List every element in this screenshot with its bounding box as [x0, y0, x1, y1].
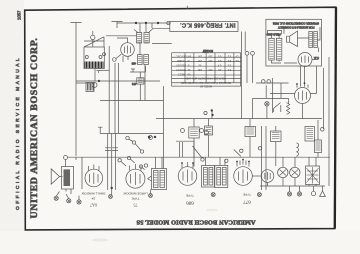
field coil winding B (inset) [276, 38, 281, 60]
resistor R2 zigzag [287, 103, 290, 115]
tube V7 (42 output) [295, 88, 311, 104]
right vertical wires [318, 57, 329, 186]
tube V1 electrodes [125, 46, 131, 54]
svg-text:TYPE: TYPE [132, 197, 140, 201]
svg-text:LARGE WINDOW: LARGE WINDOW [123, 192, 147, 196]
V6 labels (rotated 180) [243, 193, 251, 204]
diagonal wire to V5 [193, 146, 203, 158]
tube V1 grid cap [113, 58, 117, 62]
terminal circle mid [204, 111, 207, 114]
jack circle J1 [92, 83, 97, 88]
interstage transformer T3 winding A [202, 166, 215, 188]
svg-text:6A7: 6A7 [90, 203, 97, 208]
resistor R4 boxed right [271, 131, 282, 142]
resistor R3 boxed (1st AF plate) [189, 127, 199, 138]
wire osc to IF [106, 35, 137, 37]
junction dot osc [98, 80, 100, 82]
wire mid verticals [212, 83, 242, 119]
bus wire y81 [76, 80, 160, 82]
V3 labels (rotated 180) [81, 192, 105, 208]
pin dots [296, 83, 298, 85]
junction dot [157, 22, 159, 24]
svg-text:-3.0: -3.0 [217, 55, 222, 58]
svg-text:MODEL 5S: MODEL 5S [200, 84, 212, 87]
tuning gang wires [108, 134, 116, 191]
top bus wire [117, 22, 170, 24]
terminal circled x mid-bottom [211, 193, 215, 197]
resistor R1 top-left hatched [86, 83, 94, 92]
terminal crossed B [297, 192, 301, 196]
tube V7 pins [297, 66, 308, 88]
tube V8 (inset output tube) [298, 53, 312, 67]
circled label c [205, 131, 209, 135]
page border right double edge [335, 7, 336, 228]
rectifier socket B [290, 167, 300, 177]
power switch circle-x [265, 102, 269, 106]
speaker horn [287, 31, 298, 47]
terminal open circle [311, 191, 315, 195]
svg-text:75: 75 [134, 203, 138, 208]
svg-text:CF: CF [235, 59, 239, 62]
faint margin smudge 1 [92, 239, 108, 242]
T3 top wires [206, 157, 226, 166]
svg-text:OFFICIAL RADIO SERVICE MANUAL: OFFICIAL RADIO SERVICE MANUAL [15, 56, 21, 210]
B+ bus wire [156, 118, 322, 120]
gang ground terminal [109, 195, 113, 199]
wire stub y43 [152, 43, 172, 45]
switch S2 [251, 51, 255, 55]
tube V4 pins [130, 164, 142, 171]
IF transformer T1 winding top [137, 33, 142, 44]
long bus y157 [68, 156, 331, 158]
diagonal wire to V6 [234, 150, 241, 157]
terminal post A [263, 194, 265, 196]
terminal circled x right [257, 193, 261, 197]
capacitor C6 T-shape [98, 127, 103, 133]
svg-text:470: 470 [131, 82, 136, 86]
antenna coil L2 [62, 167, 74, 190]
wire y83 inset-bottom [256, 83, 289, 98]
wire left column [75, 83, 77, 156]
scan shading left [0, 0, 24, 254]
capacitor C3 pair [105, 148, 118, 151]
grid cap circle V5 [201, 158, 204, 161]
svg-text:606: 606 [186, 200, 194, 205]
junction dot bus2 [211, 114, 213, 116]
oscillator coil box L1 [84, 47, 104, 69]
transformer small right [305, 127, 315, 142]
svg-text:I.F.AMP: I.F.AMP [176, 59, 185, 62]
tube V5 (75/606) [178, 167, 197, 186]
power transformer T4 [306, 166, 320, 185]
inset wires [284, 27, 320, 63]
terminal crossed A [287, 192, 291, 196]
choke box C [245, 127, 256, 137]
wire V6 to pair [252, 175, 261, 177]
pin dots V5 [181, 162, 183, 164]
notch mark top border [186, 6, 188, 9]
wire tube V1 stems [117, 38, 128, 62]
wire trimmer to box [92, 31, 94, 47]
tube V6 pins row [237, 160, 249, 167]
circled mark with slash [149, 136, 153, 140]
coil winding hatch (dark band) [85, 62, 103, 69]
svg-text:SOCKET: SOCKET [202, 49, 213, 52]
V4 labels (rotated 180) [123, 192, 147, 208]
svg-text:VOLTAGES AT SOCKETS 117V LINE: VOLTAGES AT SOCKETS 117V LINE [186, 76, 226, 79]
IF transformer T2 [152, 169, 167, 190]
grid cap circle T3 [225, 159, 228, 162]
svg-text:SMALL WINDOW: SMALL WINDOW [81, 192, 105, 196]
variable tuning capacitor C2 (trapezoid with arrow) [84, 37, 104, 47]
junction dot [145, 22, 147, 24]
voltage table [172, 53, 241, 86]
output transformer (inset) winding 2 [314, 32, 318, 48]
capacitor C5 small [97, 66, 102, 73]
field coil label box (inset) [268, 31, 282, 35]
svg-text:OUTPUT: OUTPUT [176, 68, 186, 71]
terminal triangle [320, 191, 326, 196]
coil terminal c [103, 53, 106, 56]
svg-text:240: 240 [197, 68, 202, 71]
INT FREQ label box [170, 22, 238, 32]
svg-text:TYPE: TYPE [243, 193, 251, 197]
ground terminal GND2 [67, 199, 71, 203]
svg-text:-1.4: -1.4 [217, 64, 222, 67]
wire stub y141 [176, 140, 194, 142]
svg-text:UNITED AMERICAN BOSCH CORP.: UNITED AMERICAN BOSCH CORP. [29, 37, 40, 218]
page border frame [25, 7, 336, 230]
tube V5 pins [182, 162, 193, 168]
terminal circle A [262, 80, 266, 84]
wires power section [260, 126, 325, 186]
svg-text:TYPE: TYPE [186, 194, 194, 198]
wire R6 down [139, 72, 141, 101]
wire grid cap to tube [116, 54, 122, 59]
junction dot gang [111, 187, 113, 189]
terminal circle top bus [167, 21, 170, 24]
bus y98.4 below inset [253, 98, 289, 118]
svg-text:2ND.DET: 2ND.DET [175, 64, 186, 67]
switch S1 [245, 51, 249, 55]
terminal circle right [321, 128, 325, 132]
wires chokes [194, 119, 250, 167]
svg-text:AMERICAN BOSCH RADIO MODEL 5S: AMERICAN BOSCH RADIO MODEL 5S [136, 219, 255, 226]
svg-text:100: 100 [208, 59, 213, 62]
vertical pair right of V6 [262, 126, 267, 190]
V5 labels (rotated 180) [186, 194, 194, 205]
svg-text:250: 250 [197, 59, 202, 62]
svg-text:FOR MODELS 5-T CONNECT: FOR MODELS 5-T CONNECT [278, 25, 315, 29]
tube V3 (6A7 converter) [85, 169, 103, 187]
svg-text:C.F.: C.F. [314, 56, 320, 60]
wire IF T1 top to bus [140, 23, 152, 33]
svg-text:100: 100 [208, 55, 213, 58]
vertical connector to bus [162, 86, 164, 168]
resistor R6 470 ohm [137, 78, 144, 84]
tube V6 (677 output) [234, 167, 253, 186]
antenna terminal GND3 [77, 200, 81, 204]
wire below switch [266, 106, 268, 119]
wire osc box to bus [94, 69, 96, 82]
junction dots y137 [148, 136, 150, 138]
svg-text:Z#: Z# [91, 197, 95, 201]
circled label a [181, 129, 185, 133]
wire mid bus y100 [100, 100, 164, 102]
svg-text:-3.0: -3.0 [217, 59, 222, 62]
socket circle S3 [261, 170, 274, 183]
table cell text blobs [175, 55, 238, 88]
wire antenna [66, 157, 83, 194]
IF T1 tuning arrows [134, 29, 153, 33]
scan shading bottom [0, 231, 360, 254]
svg-text:DET.OSC.: DET.OSC. [175, 55, 186, 58]
antenna shield T2 [112, 22, 123, 29]
IF transformer T1 winding bottom [138, 55, 143, 65]
tube V1 (osc section) [121, 43, 135, 57]
antenna horn [51, 169, 62, 184]
svg-text:250: 250 [208, 68, 213, 71]
filter choke coil (loops) [296, 143, 298, 156]
antenna terminal circle [64, 156, 68, 160]
terminal lead arrows [56, 192, 79, 200]
grid cap circle V6b [258, 147, 261, 150]
wire gang to terminal [112, 190, 151, 195]
svg-text:CF: CF [235, 55, 239, 58]
resistor R5 (right, hatched) [315, 140, 322, 153]
svg-text:READINGS TAKEN WITH SET IN OPE: READINGS TAKEN WITH SET IN OPERATION [180, 81, 231, 84]
svg-text:677: 677 [243, 199, 251, 204]
wire switch stems [242, 32, 253, 84]
capacitor C4 with wire [130, 66, 146, 72]
wire below R5 [317, 153, 319, 158]
IF2 ground terminal [149, 194, 153, 198]
svg-text:465: 465 [131, 62, 136, 66]
svg-text:RECT.: RECT. [177, 72, 184, 75]
coil terminal a [85, 56, 88, 59]
wire V7 area [270, 66, 317, 119]
junction dot bus1 [211, 109, 213, 111]
interstage transformer T3 winding B [215, 166, 228, 188]
junction dot [135, 22, 137, 24]
antenna shield T1 top-left [71, 23, 82, 84]
switch lever [274, 103, 281, 113]
trimmer capacitor C1 [91, 35, 95, 39]
tube V3 pins [89, 165, 100, 171]
terminal circle B [267, 80, 271, 84]
field coil winding A (inset) [269, 38, 274, 60]
wire IF T2 tops [156, 157, 163, 169]
svg-text:SPEAKER CONNECTIONS O.K. 5852: SPEAKER CONNECTIONS O.K. 5852 [272, 22, 319, 26]
choke box B [205, 126, 213, 135]
wire pair near R3 [180, 142, 183, 157]
coil terminal b [99, 56, 102, 59]
grid cap circle V6a [240, 149, 243, 152]
tube V7 electrodes [299, 91, 307, 101]
wire stub to int-freq box [152, 27, 170, 29]
faint margin smudge 2 [206, 209, 218, 211]
IF T2 arrows [148, 176, 152, 181]
bus wire y83 left [76, 82, 95, 84]
grid cap circles [118, 159, 121, 162]
ground terminal GND1 (circle-cross) [54, 196, 58, 200]
wire x109 vertical [108, 46, 110, 134]
inset winding top wires [272, 34, 282, 63]
wire R3 stems [193, 119, 195, 158]
svg-text:250: 250 [197, 55, 202, 58]
rectifier socket A [278, 167, 288, 177]
svg-text:INT. FREQ.465 K.C.: INT. FREQ.465 K.C. [180, 22, 236, 28]
speaker inset box [266, 19, 322, 66]
bus y133.5 [100, 133, 164, 135]
wire grid cap links [121, 139, 145, 169]
terminal stems [290, 186, 323, 192]
svg-text:1057: 1057 [17, 10, 22, 20]
transformer hatch [309, 34, 317, 46]
tube V4 (78 IF amp) [126, 169, 145, 188]
circled label b [200, 129, 204, 133]
wire IF T1 vertical [140, 43, 145, 101]
wire pair x115 [115, 63, 119, 134]
svg-text:FIELD 2800: FIELD 2800 [266, 33, 280, 37]
output transformer (inset) winding 1 [309, 32, 313, 48]
pin dots V6 [236, 161, 238, 163]
wire y70.3 [101, 69, 109, 71]
